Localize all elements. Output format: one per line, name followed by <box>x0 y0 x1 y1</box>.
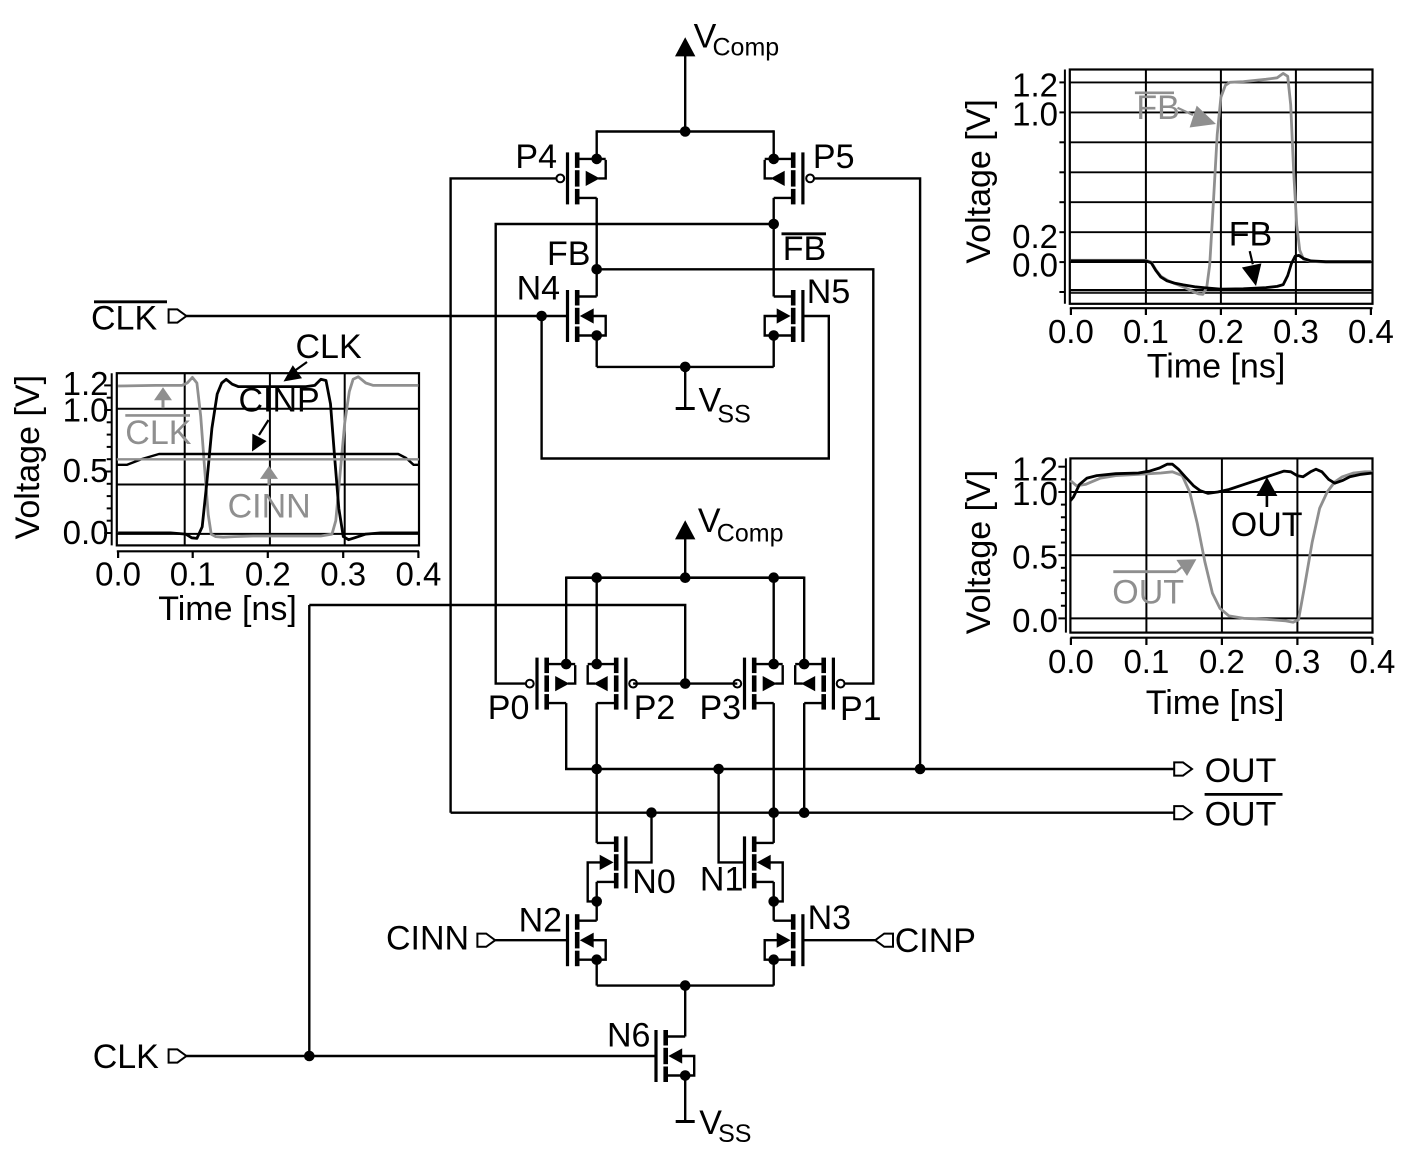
wire CLK riser <box>308 605 310 1056</box>
svg-text:CLK: CLK <box>296 328 362 366</box>
node P1 drain <box>799 659 810 670</box>
svg-text:CLK: CLK <box>125 414 191 452</box>
svg-text:OUT: OUT <box>1112 574 1184 612</box>
wire CLKbar loop to N5 gate <box>542 316 829 459</box>
wire P4 gate to OUTbar rail <box>451 178 557 812</box>
svg-text:P3: P3 <box>700 689 742 727</box>
node P0 drain <box>561 659 572 670</box>
curve OUTbar (gray) <box>1070 472 1372 622</box>
svg-text:CLK: CLK <box>91 300 157 338</box>
wire N1 source to N3 drain <box>773 882 775 921</box>
svg-text:0.2: 0.2 <box>1198 313 1244 350</box>
wire P1 source down <box>803 703 805 813</box>
svg-text:0.1: 0.1 <box>170 556 216 593</box>
FB plot y axis <box>1064 70 1066 304</box>
FB plot x axis <box>1070 307 1373 309</box>
svg-text:0.2: 0.2 <box>1199 643 1245 680</box>
left waveform plot frame <box>117 373 419 545</box>
node tail junction <box>680 980 691 991</box>
port OUTbar <box>1174 806 1192 819</box>
curve CINN (gray) <box>117 458 419 460</box>
wire P4 drain to FB node <box>596 198 598 297</box>
transistor P5 <box>801 152 804 204</box>
transistor N5 <box>801 290 804 342</box>
transistor N4 <box>566 290 569 342</box>
svg-text:OUT: OUT <box>1205 796 1277 834</box>
svg-text:FB: FB <box>1136 89 1179 127</box>
svg-text:SS: SS <box>718 1120 751 1148</box>
transistor N0 <box>624 836 627 888</box>
node P2 drain <box>591 659 602 670</box>
curve CLK (black) <box>118 379 418 539</box>
node P2 P3 gate junction <box>680 678 691 689</box>
svg-text:0.2: 0.2 <box>245 556 291 593</box>
svg-text:0.1: 0.1 <box>1123 313 1169 350</box>
wire CLK to P2 P3 gates <box>309 605 685 684</box>
svg-text:0.5: 0.5 <box>1012 539 1058 576</box>
wire VComp middle rail <box>566 576 804 579</box>
wire FBbar to P0 gate <box>496 224 774 684</box>
svg-text:0.1: 0.1 <box>1123 643 1169 680</box>
node OUT N1 gate <box>713 764 724 775</box>
svg-text:Time [ns]: Time [ns] <box>158 590 297 628</box>
svg-text:N0: N0 <box>632 863 675 901</box>
node OUTbar N0 gate <box>646 807 657 818</box>
wire N6 source to ground <box>684 1076 686 1122</box>
wire P5 drain to FBbar node <box>773 198 775 297</box>
svg-text:CINP: CINP <box>895 922 976 960</box>
port OUT <box>1174 762 1192 775</box>
svg-text:N3: N3 <box>808 899 851 937</box>
left plot gridlines <box>184 373 186 545</box>
OUT waveform plot frame <box>1070 458 1372 632</box>
wire P2 source down <box>596 703 598 769</box>
OUT plot x axis <box>1070 637 1372 639</box>
ground VSS (bottom) <box>676 1120 695 1123</box>
svg-text:Comp: Comp <box>713 34 780 62</box>
node FBbar <box>768 219 779 230</box>
port CINN <box>477 934 495 947</box>
svg-text:1.0: 1.0 <box>1012 475 1058 512</box>
transistor N1 <box>743 836 746 888</box>
svg-text:P1: P1 <box>840 690 882 728</box>
svg-text:0.0: 0.0 <box>1012 246 1058 283</box>
svg-text:0.3: 0.3 <box>1274 643 1320 680</box>
power VComp (middle) <box>675 520 695 539</box>
wire FB to P1 gate <box>597 269 874 683</box>
ground VSS (latch) <box>684 367 686 409</box>
wire P5 gate to OUT rail <box>814 178 920 769</box>
svg-text:P5: P5 <box>813 138 855 176</box>
node OUTbar P1 <box>799 807 810 818</box>
svg-text:FB: FB <box>1229 216 1272 254</box>
port CLK <box>169 1049 187 1062</box>
svg-text:0.4: 0.4 <box>395 556 441 593</box>
transistor P2 <box>624 658 627 710</box>
port CINP <box>875 934 893 947</box>
svg-text:0.3: 0.3 <box>1273 313 1319 350</box>
svg-text:N2: N2 <box>519 902 562 940</box>
svg-text:Time [ns]: Time [ns] <box>1147 348 1286 386</box>
curve CLKbar (gray) <box>118 377 418 537</box>
svg-text:CINP: CINP <box>239 382 320 420</box>
transistor P3 <box>743 658 746 710</box>
curve CINP (black) <box>117 454 419 465</box>
wire N1 gate to OUT <box>719 769 745 862</box>
svg-text:N5: N5 <box>807 273 850 311</box>
transistor N6 <box>654 1030 657 1082</box>
svg-text:0.0: 0.0 <box>63 514 109 551</box>
wire N3 gate to CINP <box>803 939 875 941</box>
wire N0 gate to OUTbar <box>626 813 652 863</box>
node VComp mid junction <box>680 572 691 583</box>
wire P0 source down <box>565 703 567 769</box>
wire tail to N6 drain <box>684 986 686 1037</box>
svg-text:0.0: 0.0 <box>1048 313 1094 350</box>
svg-text:Voltage [V]: Voltage [V] <box>960 99 998 263</box>
wire VSS rail (latch) <box>597 366 774 368</box>
svg-text:P4: P4 <box>515 138 557 176</box>
node CLKbar junction <box>536 311 547 322</box>
svg-text:0.5: 0.5 <box>63 452 109 489</box>
port CLKbar <box>169 309 187 322</box>
transistor P1 <box>832 658 835 710</box>
power VComp (top) <box>675 37 695 56</box>
wire CLK to N6 gate <box>186 1055 656 1057</box>
OUT plot y axis <box>1065 458 1067 632</box>
svg-text:P0: P0 <box>488 689 530 727</box>
node P4 drain <box>591 154 602 165</box>
wire N5 source to VSS <box>773 336 775 367</box>
transistor P4 <box>566 152 569 204</box>
svg-text:P2: P2 <box>634 689 676 727</box>
wire tail rail <box>597 984 774 986</box>
node P3 drain <box>768 659 779 670</box>
node OUT P5 gate <box>915 764 926 775</box>
svg-text:0.0: 0.0 <box>1012 602 1058 639</box>
wire P2 supply <box>596 578 598 664</box>
wire N2 source to tail <box>596 960 598 986</box>
curve FBbar (gray) <box>1071 73 1371 294</box>
svg-text:N6: N6 <box>607 1016 650 1054</box>
wire N0 drain to OUT <box>596 769 598 843</box>
left plot x axis <box>117 550 419 552</box>
node OUTbar P3 <box>768 807 779 818</box>
svg-text:0.0: 0.0 <box>1048 643 1094 680</box>
svg-text:OUT: OUT <box>1205 752 1277 790</box>
wire N3 source to tail <box>773 960 775 986</box>
transistor N2 <box>566 914 569 966</box>
wire N0 source to N2 drain <box>596 882 598 921</box>
node VSS rail junction <box>680 362 691 373</box>
wire OUTbar rail <box>451 812 1192 814</box>
OUT plot gridlines <box>1070 491 1372 493</box>
svg-text:0.0: 0.0 <box>95 556 141 593</box>
node P3 supply on rail <box>768 572 779 583</box>
svg-text:Comp: Comp <box>717 520 784 548</box>
FB waveform plot frame <box>1070 70 1373 304</box>
svg-text:0.4: 0.4 <box>1349 643 1395 680</box>
node VComp rail junction <box>680 126 691 137</box>
svg-text:N4: N4 <box>517 270 560 308</box>
svg-text:CLK: CLK <box>93 1038 159 1076</box>
curve OUT (black) <box>1070 464 1372 501</box>
node CLK junction <box>304 1051 315 1062</box>
node FB <box>591 264 602 275</box>
node P5 drain <box>768 154 779 165</box>
svg-text:0.3: 0.3 <box>320 556 366 593</box>
node OUT P2 <box>591 764 602 775</box>
node P2 supply on rail <box>591 572 602 583</box>
svg-text:Voltage [V]: Voltage [V] <box>9 375 47 539</box>
curve FB (black) <box>1071 255 1371 289</box>
svg-text:1.0: 1.0 <box>1012 96 1058 133</box>
wire CLKbar to N4 gate <box>186 315 567 317</box>
wire N4 source to VSS <box>596 336 598 367</box>
svg-text:FB: FB <box>783 230 826 268</box>
wire CINN to N2 gate <box>495 939 567 941</box>
svg-text:0.4: 0.4 <box>1348 313 1394 350</box>
svg-text:Voltage [V]: Voltage [V] <box>960 470 998 634</box>
svg-text:CINN: CINN <box>386 919 469 957</box>
wire P3 supply <box>773 578 775 664</box>
svg-text:CINN: CINN <box>228 487 311 525</box>
wire VComp top rail <box>597 130 774 132</box>
svg-text:OUT: OUT <box>1231 506 1303 544</box>
wire P3 source down <box>773 703 775 813</box>
left plot y axis <box>111 373 113 545</box>
wire OUT rail <box>566 768 1192 769</box>
transistor N3 <box>801 914 804 966</box>
wire N1 drain to OUTbar <box>773 813 775 843</box>
svg-text:N1: N1 <box>700 861 743 899</box>
svg-text:FB: FB <box>547 235 590 273</box>
transistor P0 <box>535 658 538 710</box>
svg-text:SS: SS <box>717 401 750 429</box>
svg-text:Time [ns]: Time [ns] <box>1146 684 1285 722</box>
svg-text:1.0: 1.0 <box>63 392 109 429</box>
FB plot gridlines <box>1070 81 1373 83</box>
